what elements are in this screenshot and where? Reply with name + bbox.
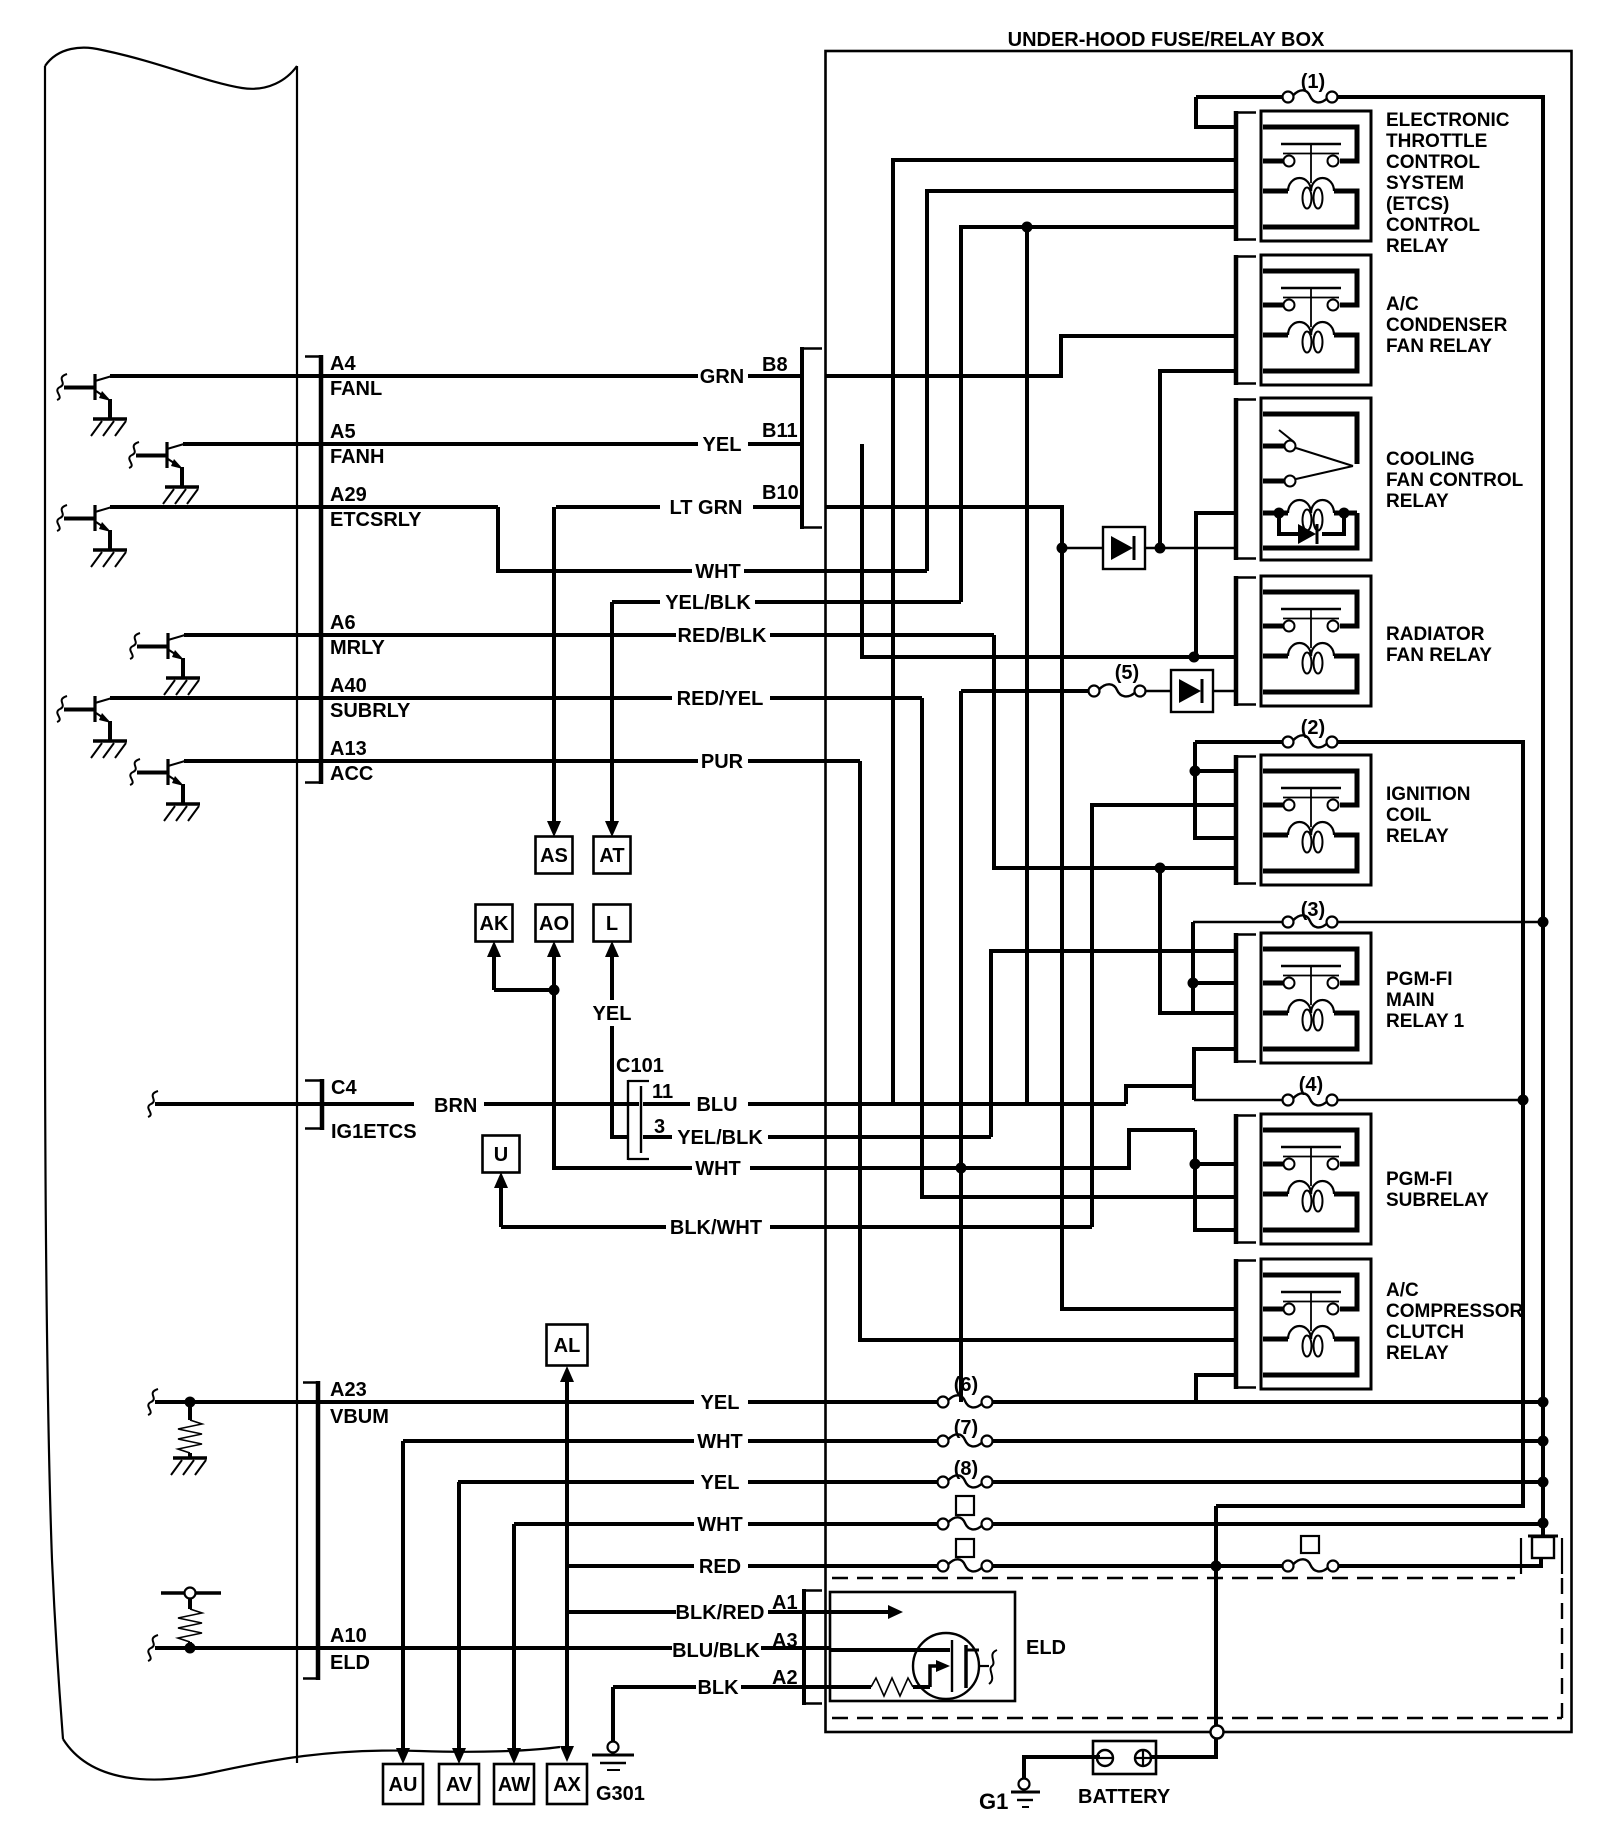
svg-text:RELAY: RELAY [1386, 826, 1449, 847]
svg-text:RED: RED [699, 1556, 741, 1578]
svg-text:IG1ETCS: IG1ETCS [331, 1121, 417, 1143]
svg-text:VBUM: VBUM [330, 1406, 389, 1428]
svg-text:WHT: WHT [695, 561, 741, 583]
svg-text:BATTERY: BATTERY [1078, 1786, 1171, 1808]
svg-text:AS: AS [540, 845, 568, 867]
svg-text:A23: A23 [330, 1379, 367, 1401]
svg-text:BRN: BRN [434, 1095, 477, 1117]
svg-text:MAIN: MAIN [1386, 990, 1435, 1011]
svg-text:U: U [494, 1144, 508, 1166]
svg-text:3: 3 [654, 1116, 665, 1138]
svg-text:RED/YEL: RED/YEL [677, 688, 764, 710]
svg-text:PGM-FI: PGM-FI [1386, 1169, 1453, 1190]
svg-text:G301: G301 [596, 1783, 645, 1805]
svg-text:(3): (3) [1301, 899, 1325, 921]
svg-text:(ETCS): (ETCS) [1386, 194, 1449, 215]
svg-text:CONTROL: CONTROL [1386, 152, 1480, 173]
svg-text:ETCSRLY: ETCSRLY [330, 509, 422, 531]
svg-text:SUBRELAY: SUBRELAY [1386, 1190, 1489, 1211]
svg-text:CONTROL: CONTROL [1386, 215, 1480, 236]
svg-text:YEL: YEL [593, 1003, 632, 1025]
svg-text:A2: A2 [772, 1667, 798, 1689]
svg-text:ACC: ACC [330, 763, 373, 785]
svg-text:SUBRLY: SUBRLY [330, 700, 411, 722]
svg-text:A1: A1 [772, 1592, 798, 1614]
svg-text:ELD: ELD [330, 1652, 370, 1674]
svg-text:PGM-FI: PGM-FI [1386, 969, 1453, 990]
svg-text:G1: G1 [979, 1789, 1008, 1814]
svg-text:RELAY: RELAY [1386, 1343, 1449, 1364]
svg-text:B11: B11 [762, 420, 798, 442]
svg-text:A3: A3 [772, 1630, 798, 1652]
svg-text:AX: AX [553, 1774, 581, 1796]
svg-text:ELD: ELD [1026, 1637, 1066, 1659]
svg-text:(2): (2) [1301, 717, 1325, 739]
svg-text:RED/BLK: RED/BLK [678, 625, 767, 647]
svg-text:A10: A10 [330, 1625, 367, 1647]
svg-text:(6): (6) [954, 1374, 978, 1396]
svg-text:RELAY: RELAY [1386, 491, 1449, 512]
svg-text:WHT: WHT [697, 1514, 743, 1536]
svg-text:IGNITION: IGNITION [1386, 784, 1470, 805]
svg-text:UNDER-HOOD FUSE/RELAY BOX: UNDER-HOOD FUSE/RELAY BOX [1008, 29, 1325, 51]
svg-text:11: 11 [652, 1081, 673, 1103]
svg-text:A29: A29 [330, 484, 367, 506]
svg-text:LT GRN: LT GRN [670, 497, 743, 519]
svg-text:YEL/BLK: YEL/BLK [665, 592, 751, 614]
svg-text:BLU/BLK: BLU/BLK [672, 1640, 760, 1662]
svg-text:BLK/RED: BLK/RED [676, 1602, 765, 1624]
svg-text:AV: AV [446, 1774, 473, 1796]
svg-text:(4): (4) [1299, 1074, 1323, 1096]
svg-text:BLK: BLK [697, 1677, 739, 1699]
svg-text:COIL: COIL [1386, 805, 1432, 826]
svg-text:AK: AK [480, 913, 509, 935]
svg-text:(8): (8) [954, 1458, 978, 1480]
svg-text:RELAY: RELAY [1386, 236, 1449, 257]
svg-text:AL: AL [554, 1335, 581, 1357]
svg-text:C101: C101 [616, 1055, 664, 1077]
svg-text:A4: A4 [330, 353, 356, 375]
svg-text:(5): (5) [1115, 662, 1139, 684]
svg-text:WHT: WHT [697, 1431, 743, 1453]
svg-text:FANL: FANL [330, 378, 382, 400]
svg-text:C4: C4 [331, 1077, 357, 1099]
svg-text:A/C: A/C [1386, 294, 1419, 315]
svg-text:L: L [606, 913, 618, 935]
svg-text:CLUTCH: CLUTCH [1386, 1322, 1464, 1343]
svg-text:GRN: GRN [700, 366, 744, 388]
svg-text:FAN RELAY: FAN RELAY [1386, 336, 1492, 357]
svg-text:THROTTLE: THROTTLE [1386, 131, 1487, 152]
svg-text:RADIATOR: RADIATOR [1386, 624, 1485, 645]
svg-text:FAN RELAY: FAN RELAY [1386, 645, 1492, 666]
svg-text:YEL/BLK: YEL/BLK [677, 1127, 763, 1149]
svg-text:A5: A5 [330, 421, 356, 443]
svg-text:CONDENSER: CONDENSER [1386, 315, 1508, 336]
svg-text:MRLY: MRLY [330, 637, 385, 659]
svg-text:A13: A13 [330, 738, 367, 760]
svg-text:PUR: PUR [701, 751, 744, 773]
svg-text:AW: AW [498, 1774, 530, 1796]
svg-text:RELAY 1: RELAY 1 [1386, 1011, 1465, 1032]
svg-text:A40: A40 [330, 675, 367, 697]
svg-text:YEL: YEL [701, 1472, 740, 1494]
svg-text:COOLING: COOLING [1386, 449, 1475, 470]
svg-text:A6: A6 [330, 612, 356, 634]
svg-text:AO: AO [539, 913, 569, 935]
svg-text:FANH: FANH [330, 446, 384, 468]
svg-text:AU: AU [389, 1774, 418, 1796]
svg-text:BLK/WHT: BLK/WHT [670, 1217, 762, 1239]
svg-text:FAN CONTROL: FAN CONTROL [1386, 470, 1524, 491]
svg-text:(1): (1) [1301, 71, 1325, 93]
svg-text:B10: B10 [762, 482, 799, 504]
svg-text:BLU: BLU [696, 1094, 737, 1116]
svg-text:A/C: A/C [1386, 1280, 1419, 1301]
svg-text:YEL: YEL [701, 1392, 740, 1414]
svg-text:WHT: WHT [695, 1158, 741, 1180]
svg-text:YEL: YEL [703, 434, 742, 456]
svg-text:B8: B8 [762, 354, 788, 376]
svg-text:COMPRESSOR: COMPRESSOR [1386, 1301, 1524, 1322]
svg-text:AT: AT [599, 845, 624, 867]
svg-text:SYSTEM: SYSTEM [1386, 173, 1464, 194]
svg-text:ELECTRONIC: ELECTRONIC [1386, 110, 1510, 131]
svg-text:(7): (7) [954, 1417, 978, 1439]
